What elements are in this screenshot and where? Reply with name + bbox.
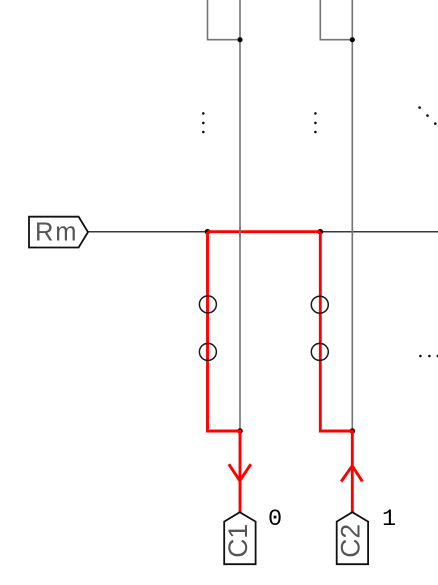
svg-text:Rm: Rm: [35, 218, 78, 246]
svg-text:0: 0: [268, 506, 282, 533]
svg-text:1: 1: [382, 506, 396, 533]
svg-text:C2: C2: [336, 524, 366, 558]
svg-text:C1: C1: [223, 524, 253, 558]
